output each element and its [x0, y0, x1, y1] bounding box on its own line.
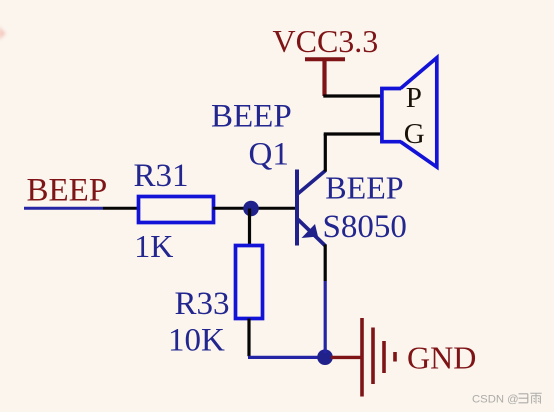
svg-text:R33: R33 — [175, 286, 230, 322]
transistor Q1 emitter arrow — [302, 224, 319, 238]
svg-text:G: G — [404, 118, 425, 150]
wire black R31 to base node — [213, 207, 296, 210]
wire black collector up — [324, 134, 327, 172]
svg-text:R31: R31 — [134, 158, 189, 194]
wire blue bottom horizontal to ground node — [248, 356, 320, 359]
transistor Q1 base bar — [295, 170, 299, 246]
wire dark red to GND symbol — [331, 356, 362, 359]
resistor R31 body — [139, 197, 214, 223]
svg-text:VCC3.3: VCC3.3 — [273, 23, 379, 59]
speaker LS1 cone — [401, 58, 437, 167]
junction node base — [243, 201, 259, 217]
wire black emitter down — [324, 245, 327, 282]
svg-text:P: P — [406, 82, 422, 114]
transistor Q1 collector stroke — [298, 171, 326, 195]
watermark glyph 2 — [530, 393, 541, 403]
svg-text:BEEP: BEEP — [325, 169, 403, 205]
power VCC3.3 stem — [322, 59, 326, 96]
svg-text:Q1: Q1 — [249, 136, 289, 172]
transistor Q1 emitter stroke — [298, 219, 326, 246]
wire black VCC to speaker pin P — [323, 94, 381, 97]
svg-text:S8050: S8050 — [323, 209, 407, 245]
speaker LS1 body — [382, 89, 401, 142]
svg-text:10K: 10K — [168, 323, 225, 359]
junction node ground — [317, 349, 333, 365]
wire black R33 bottom down — [247, 319, 250, 357]
wire blue segment under BEEP label — [24, 207, 103, 210]
svg-text:BEEP: BEEP — [211, 99, 292, 135]
wire blue emitter to ground node — [324, 281, 327, 353]
svg-text:BEEP: BEEP — [27, 173, 108, 209]
watermark glyph 1 — [519, 394, 528, 403]
svg-text:1K: 1K — [134, 228, 173, 264]
wire black node down to R33 — [248, 209, 251, 246]
ground GND symbol bars — [362, 318, 395, 397]
wire black collector to speaker pin G — [324, 132, 381, 135]
power VCC3.3 bar symbol — [305, 57, 345, 61]
resistor R33 body — [236, 246, 263, 319]
svg-text:GND: GND — [407, 339, 476, 375]
svg-text:CSDN @: CSDN @ — [472, 394, 519, 406]
wire black to R31 — [103, 207, 139, 210]
